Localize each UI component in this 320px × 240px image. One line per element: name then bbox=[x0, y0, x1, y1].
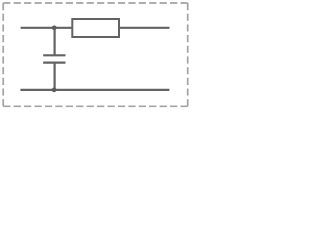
node: bottom junction dot bbox=[52, 88, 57, 93]
dashed schematic boundary frame: bottom edge bbox=[3, 105, 188, 107]
resistor R1 bbox=[72, 19, 119, 37]
capacitor C1 bottom plate bbox=[43, 61, 65, 63]
dashed schematic boundary frame: top edge bbox=[3, 2, 188, 4]
wire: bottom rail (ground return) bbox=[20, 89, 169, 91]
wire: capacitor top lead bbox=[53, 28, 55, 56]
wire: top rail left segment (input to resistor) bbox=[21, 27, 73, 29]
wire: top rail right segment (resistor to output) bbox=[119, 27, 170, 29]
wire: capacitor bottom lead bbox=[53, 63, 55, 90]
dashed schematic boundary frame: left edge bbox=[2, 3, 4, 106]
capacitor C1 top plate bbox=[43, 54, 65, 56]
node: top junction dot bbox=[52, 25, 57, 30]
dashed schematic boundary frame: right edge bbox=[187, 3, 189, 106]
